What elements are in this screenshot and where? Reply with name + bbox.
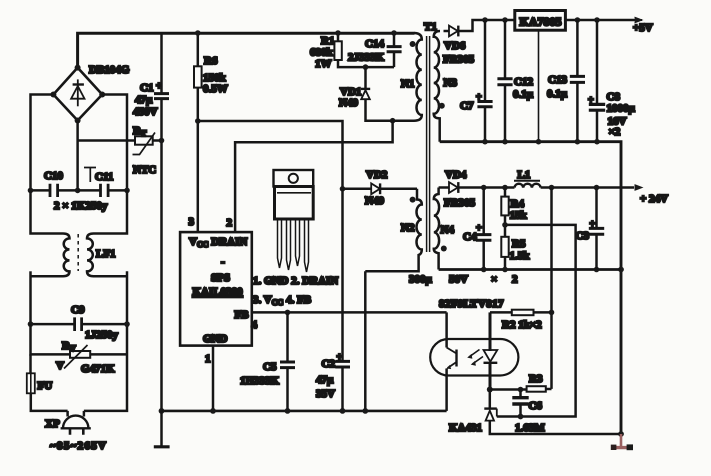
svg-text:N1: N1: [401, 78, 414, 90]
diode VD2 N49: [343, 188, 372, 191]
svg-text:+: +: [476, 92, 482, 103]
winding N2: [365, 189, 422, 271]
TO-220 package drawing: [274, 170, 314, 187]
svg-text:47μ: 47μ: [135, 94, 153, 106]
wire FB: [252, 311, 447, 314]
svg-text:35V: 35V: [316, 388, 335, 400]
svg-text:2J333K: 2J333K: [348, 52, 385, 64]
inductor LF1 common-mode choke: [31, 190, 64, 233]
wire drain node: [366, 119, 415, 122]
svg-text:+: +: [156, 81, 162, 92]
resistor R2: [490, 311, 512, 314]
resistor R4: [504, 188, 507, 197]
wire bridge right to right rail: [102, 95, 127, 191]
capacitor C9: [31, 323, 75, 326]
svg-text:1000μ: 1000μ: [607, 103, 636, 115]
svg-text:FB: FB: [235, 309, 250, 321]
svg-text:R5: R5: [512, 238, 526, 250]
svg-text:R4: R4: [511, 198, 525, 210]
diode VD1 N49: [364, 67, 367, 89]
thermistor RT NTC: [78, 139, 135, 142]
svg-text:R2 1k×2: R2 1k×2: [502, 319, 542, 331]
svg-text:C8: C8: [607, 91, 621, 103]
svg-text:3. VCC 4. FB: 3. VCC 4. FB: [253, 294, 312, 307]
inductor L1: [515, 184, 541, 188]
svg-text:C11: C11: [95, 171, 113, 183]
svg-text:C2: C2: [322, 358, 336, 370]
resistor R1: [337, 33, 340, 41]
svg-text:0.5W: 0.5W: [203, 83, 228, 95]
svg-text:DB104G: DB104G: [89, 64, 130, 76]
IC KA7805: [515, 11, 566, 31]
svg-text:1.5k: 1.5k: [510, 250, 531, 262]
light arrows: [469, 350, 483, 365]
svg-text:680k: 680k: [310, 47, 334, 59]
winding N3: [434, 31, 440, 142]
winding N1: [366, 33, 422, 121]
svg-text:C12: C12: [514, 76, 533, 88]
svg-text:C1: C1: [140, 82, 153, 94]
svg-text:2 × 1K250y: 2 × 1K250y: [54, 200, 108, 212]
svg-text:KA431: KA431: [449, 422, 482, 434]
capacitor C14: [393, 33, 396, 46]
plug XP: [66, 411, 69, 417]
svg-text:+ 24V: + 24V: [640, 193, 668, 205]
svg-text:N4: N4: [441, 224, 455, 236]
wire top rail from bridge to T1: [78, 33, 415, 67]
wire bridge left to left rail: [31, 95, 54, 191]
svg-text:VD4: VD4: [445, 169, 467, 181]
svg-text:1. GND 2. DRAIN: 1. GND 2. DRAIN: [253, 275, 338, 287]
wire R2 feed vertical: [550, 188, 553, 389]
svg-text:N49: N49: [339, 97, 358, 109]
wire +5V output: [565, 19, 634, 22]
resistor R5: [501, 237, 508, 257]
svg-text:N49: N49: [365, 195, 384, 207]
svg-text:KA7805: KA7805: [520, 15, 562, 29]
svg-text:RV: RV: [62, 340, 76, 353]
svg-text:VCC DRAIN: VCC DRAIN: [189, 236, 247, 249]
resistor R6: [197, 33, 200, 66]
wire bridge bottom down: [76, 121, 79, 191]
winding N4: [434, 188, 439, 270]
svg-text:4: 4: [252, 319, 258, 331]
fuse FU: [29, 354, 32, 373]
svg-text:C3: C3: [576, 230, 590, 242]
transformer T1 core: [427, 36, 430, 252]
svg-text:1J250y: 1J250y: [85, 329, 119, 341]
node KA431 cathode: [487, 387, 493, 393]
svg-text:×2: ×2: [609, 126, 621, 138]
svg-text:-: -: [221, 256, 225, 268]
varistor RV G471K: [31, 324, 71, 354]
optocoupler U2 82F9LTV817: [430, 339, 518, 376]
capacitor C3: [595, 188, 598, 229]
ground secondary (red): [612, 434, 630, 448]
svg-text:C5: C5: [263, 361, 277, 373]
svg-text:VD6: VD6: [444, 40, 466, 52]
IC U1 SPS KA1L0380 box: [180, 232, 252, 346]
bridge rectifier DB104G: [53, 68, 102, 121]
wire divider tap: [497, 225, 576, 417]
wire 24V return rail: [439, 268, 621, 271]
svg-text:C4: C4: [463, 231, 477, 243]
opto LED: [489, 312, 492, 351]
svg-text:R1: R1: [321, 35, 334, 47]
svg-text:GND: GND: [203, 333, 228, 345]
svg-text:0.1μ: 0.1μ: [547, 88, 568, 100]
svg-text:NTC: NTC: [133, 164, 156, 176]
svg-text:~85~265V: ~85~265V: [50, 440, 107, 452]
svg-text:1.63M: 1.63M: [515, 422, 545, 434]
capacitor C11: [78, 189, 101, 192]
svg-text:450V: 450V: [133, 106, 158, 118]
svg-text:300μ50V×2: 300μ50V×2: [409, 274, 518, 286]
capacitor C2: [335, 361, 350, 367]
svg-text:47μ: 47μ: [316, 374, 334, 386]
svg-text:L1: L1: [518, 169, 531, 181]
svg-text:3: 3: [189, 216, 195, 228]
capacitor C10: [31, 189, 50, 192]
capacitor C12: [504, 20, 507, 78]
svg-text:FR305: FR305: [444, 197, 476, 209]
shunt regulator KA431: [489, 390, 492, 409]
svg-text:C13: C13: [548, 74, 567, 86]
diode VD6 FR305: [444, 30, 450, 33]
svg-text:N3: N3: [444, 77, 458, 89]
ground primary: [159, 408, 165, 414]
svg-text:G471K: G471K: [81, 363, 115, 375]
diode VD4 FR305: [439, 186, 449, 189]
svg-text:+: +: [590, 219, 596, 230]
svg-text:1W: 1W: [315, 58, 332, 70]
wire left rail down: [29, 271, 32, 324]
svg-text:LF1: LF1: [96, 248, 116, 260]
svg-text:R6: R6: [204, 55, 218, 67]
svg-text:RT: RT: [133, 125, 147, 138]
svg-text:+: +: [588, 95, 594, 106]
svg-text:1H333K: 1H333K: [240, 375, 280, 387]
wire primary ground rail: [162, 410, 447, 413]
capacitor C7: [484, 20, 487, 101]
svg-text:C9: C9: [71, 304, 85, 316]
wire 5V return rail: [440, 142, 621, 434]
svg-text:FU: FU: [38, 380, 53, 392]
svg-text:XP: XP: [45, 418, 60, 430]
resistor R3: [527, 386, 546, 392]
capacitor C5: [286, 312, 289, 361]
capacitor C1: [160, 33, 163, 93]
wire right rail down: [84, 271, 127, 411]
capacitor C8: [596, 20, 599, 104]
wire GND pin1: [212, 346, 215, 411]
svg-text:V: V: [56, 360, 64, 372]
svg-text:C7: C7: [460, 100, 474, 112]
svg-text:VD2: VD2: [366, 169, 388, 181]
svg-text:1: 1: [205, 353, 211, 365]
svg-text:R3: R3: [529, 373, 543, 385]
capacitor C13: [576, 20, 579, 76]
wire Vcc branch: [198, 121, 343, 189]
svg-text:82F9LTV817: 82F9LTV817: [439, 298, 504, 310]
svg-text:FR305: FR305: [443, 54, 475, 66]
svg-text:SPS: SPS: [211, 272, 230, 284]
capacitor C6: [519, 390, 522, 398]
svg-text:15k: 15k: [510, 210, 528, 222]
svg-text:C10: C10: [44, 170, 63, 182]
svg-text:C14: C14: [365, 38, 384, 50]
capacitor C4: [482, 188, 485, 235]
svg-text:C6: C6: [529, 400, 543, 412]
svg-text:+: +: [337, 352, 343, 363]
svg-text:0.1μ: 0.1μ: [513, 89, 534, 101]
svg-text:2: 2: [227, 217, 233, 229]
svg-text:N2: N2: [401, 222, 415, 234]
svg-text:+: +: [476, 223, 482, 234]
svg-text:+5V: +5V: [633, 22, 653, 34]
svg-text:KAIL0380: KAIL0380: [193, 286, 244, 298]
opto phototransistor: [445, 312, 448, 347]
